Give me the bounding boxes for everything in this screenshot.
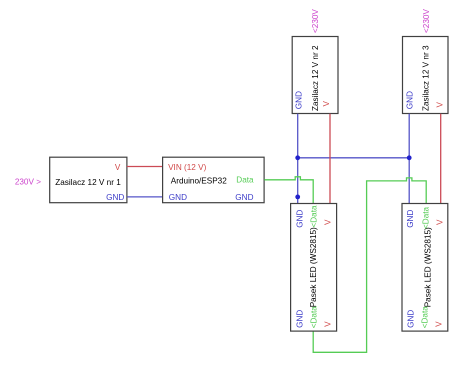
wire V: PS1 to U1 VIN (127, 166, 162, 168)
pin GND top of LED2 (406, 210, 415, 228)
svg-text:GND: GND (294, 91, 303, 109)
svg-text:Pasek LED (WS2815): Pasek LED (WS2815) (423, 227, 432, 307)
pin V top of LED1 (323, 219, 332, 225)
pin GND top of LED1 (295, 210, 304, 228)
junction: GND node where U1 GND joins (295, 195, 300, 200)
pin GND bottom of LED1 (295, 310, 304, 328)
svg-text:V: V (435, 102, 444, 108)
wire GND bus: horizontal between GND verticals (298, 157, 410, 159)
power supply PS2 (Zasilacz 12 V nr 2) (292, 37, 338, 114)
pin V of PS2 (322, 101, 331, 107)
svg-text:VIN (12 V): VIN (12 V) (168, 163, 206, 172)
power supply PS3 (Zasilacz 12 V nr 3) (403, 37, 449, 114)
svg-text:<Data: <Data (421, 306, 430, 329)
pin GND of PS1 (106, 193, 124, 202)
pin Data-in top of LED2 (422, 206, 431, 229)
power supply PS1 (Zasilacz 12 V nr 1) (50, 157, 127, 203)
wire GND: PS1 to U1 GND (127, 196, 162, 198)
svg-text:V: V (323, 219, 332, 225)
svg-text:V: V (322, 101, 331, 107)
wire V: PS3 down to LED2 V (440, 114, 442, 204)
svg-text:V: V (434, 321, 443, 327)
svg-text:GND: GND (295, 210, 304, 228)
pin GND bottom of LED2 (406, 310, 415, 328)
pin GND of PS2 (294, 91, 303, 109)
pin V bottom of LED2 (434, 321, 443, 327)
LED strip LED2 (Pasek LED WS2815) (402, 204, 448, 332)
svg-text:Pasek LED (WS2815): Pasek LED (WS2815) (309, 227, 318, 307)
svg-text:GND: GND (406, 91, 415, 109)
pin V of PS3 (435, 102, 444, 108)
svg-text:Zasilacz 12 V nr 1: Zasilacz 12 V nr 1 (55, 178, 121, 187)
pin V of PS1 (115, 163, 121, 172)
label 230V mains input at PS1 (15, 177, 41, 186)
svg-text:<230V: <230V (422, 9, 431, 33)
pin Data-out bottom of LED1 (309, 306, 318, 329)
svg-text:V: V (115, 163, 121, 172)
LED strip LED1 (Pasek LED WS2815) (291, 204, 337, 332)
junction: GND node at bus left end (295, 155, 300, 160)
svg-text:<230V: <230V (311, 9, 320, 33)
pin V top of LED2 (436, 219, 445, 225)
svg-text:Data: Data (236, 176, 254, 185)
pin VIN (12 V) of U1 (168, 163, 206, 172)
wire Data: LED1 data-out to LED2 data-in (hops over GND wire) (313, 178, 426, 352)
svg-text:V: V (436, 219, 445, 225)
svg-text:Zasilacz 12 V nr 2: Zasilacz 12 V nr 2 (311, 45, 320, 111)
pin Data-out bottom of LED2 (421, 306, 430, 329)
svg-text:<Data: <Data (309, 306, 318, 329)
wire GND: PS2 down to LED1 GND (vertical) (297, 114, 299, 204)
pin GND of PS3 (406, 91, 415, 109)
controller U1 (Arduino/ESP32) (163, 157, 265, 203)
svg-text:GND: GND (295, 310, 304, 328)
svg-text:GND: GND (235, 193, 253, 202)
svg-text:GND: GND (169, 193, 187, 202)
svg-text:<Data: <Data (309, 205, 318, 228)
wire GND: PS3 down to LED2 GND (vertical) (408, 114, 410, 204)
label 230V mains input at PS2 (311, 9, 320, 33)
svg-text:V: V (323, 321, 332, 327)
svg-text:Arduino/ESP32: Arduino/ESP32 (171, 177, 227, 186)
svg-text:<Data: <Data (422, 206, 431, 229)
wire Data: U1 to LED1 data-in (hops over GND wire) (264, 177, 313, 203)
pin GND right of U1 (235, 193, 253, 202)
pin V bottom of LED1 (323, 321, 332, 327)
pin Data-in top of LED1 (309, 205, 318, 228)
pin GND left of U1 (169, 193, 187, 202)
svg-text:GND: GND (106, 193, 124, 202)
junction: GND node at bus right end (407, 155, 412, 160)
svg-text:230V >: 230V > (15, 177, 41, 186)
wire V: PS2 down to LED1 V (329, 114, 331, 204)
svg-text:Zasilacz 12 V nr 3: Zasilacz 12 V nr 3 (421, 45, 430, 111)
pin Data of U1 (236, 176, 254, 185)
svg-text:GND: GND (406, 210, 415, 228)
svg-text:GND: GND (406, 310, 415, 328)
label 230V mains input at PS3 (422, 9, 431, 33)
